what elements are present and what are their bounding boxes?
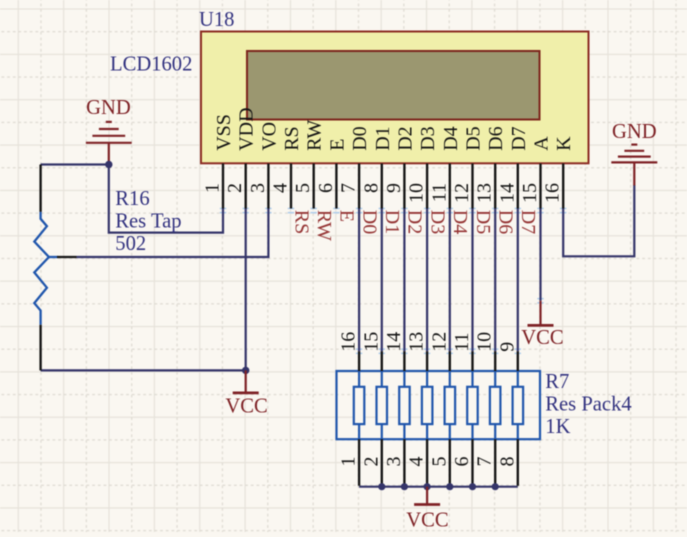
R7 resistor element 3 [399, 371, 410, 439]
svg-text:D4: D4 [440, 126, 462, 150]
R7 pin 12 (top) [428, 332, 450, 371]
svg-text:D0: D0 [349, 126, 371, 150]
svg-text:Res Pack4: Res Pack4 [545, 394, 631, 416]
wire: net D3 from U18 pin 10 to R7 pin 13 [426, 209, 428, 352]
svg-text:LCD1602: LCD1602 [110, 53, 192, 75]
power port VCC (bottom, R7 bus) [406, 487, 448, 532]
svg-text:A: A [531, 136, 553, 151]
wire: net D4 from U18 pin 11 to R7 pin 12 [449, 209, 451, 352]
R7 pin 9 (top) [496, 342, 518, 371]
ground GND (left) [86, 97, 132, 165]
svg-text:RW: RW [313, 210, 335, 241]
svg-text:13: 13 [406, 332, 428, 352]
resistor R16 bottom pin [39, 325, 41, 371]
svg-text:D2: D2 [404, 210, 426, 234]
svg-text:E: E [326, 139, 348, 151]
svg-text:GND: GND [86, 97, 131, 119]
U18 pin 7 (D0) [338, 126, 372, 208]
svg-text:D5: D5 [463, 126, 485, 150]
R7 pin 16 (top) [338, 332, 360, 371]
svg-text:15: 15 [519, 183, 541, 203]
R7 resistor element 1 [354, 371, 365, 439]
svg-text:1K: 1K [545, 416, 570, 438]
R7 pin 8 (bottom) [496, 439, 518, 486]
svg-text:D2: D2 [394, 126, 416, 150]
svg-text:VSS: VSS [213, 114, 235, 151]
wire: R16 bottom to VCC junction [41, 369, 246, 371]
R7 pin 10 (top) [474, 332, 496, 371]
junction dot R7 pin 3 on VCC bus [401, 483, 408, 490]
svg-text:9: 9 [383, 183, 405, 193]
LCD display window [247, 51, 540, 120]
U18 pin 14 (D7) [496, 126, 530, 208]
R7 pin 4 (bottom) [406, 439, 428, 486]
R7 pin 13 (top) [406, 332, 428, 371]
junction dot at VDD/R16/VCC node [242, 367, 249, 374]
svg-text:RS: RS [290, 210, 312, 234]
svg-text:D4: D4 [449, 210, 471, 234]
junction dot R7 pin 2 on VCC bus [378, 483, 385, 490]
svg-text:6: 6 [315, 183, 337, 193]
svg-text:D3: D3 [426, 210, 448, 234]
R7 resistor element 4 [422, 371, 433, 439]
resistor R16 top pin [39, 165, 41, 212]
wire: net D6 from U18 pin 13 to R7 pin 10 [494, 209, 496, 352]
svg-text:VDD: VDD [236, 107, 258, 150]
U18 pin 11 (D4) [428, 126, 462, 208]
svg-text:E: E [336, 210, 358, 222]
svg-text:6: 6 [451, 457, 473, 467]
svg-text:R16: R16 [115, 188, 149, 210]
svg-text:16: 16 [338, 332, 360, 352]
svg-text:11: 11 [451, 333, 473, 352]
junction dot R7 pin 4 on VCC bus [424, 483, 431, 490]
svg-text:5: 5 [292, 183, 314, 193]
U18 pin 15 (A) [519, 136, 553, 209]
svg-text:D1: D1 [381, 210, 403, 234]
svg-text:13: 13 [474, 183, 496, 203]
svg-text:D6: D6 [485, 126, 507, 150]
junction dot R7 pin 6 on VCC bus [469, 483, 476, 490]
U18 pin 10 (D3) [406, 126, 440, 208]
svg-text:7: 7 [474, 457, 496, 467]
svg-text:RS: RS [281, 126, 303, 150]
svg-text:2: 2 [360, 457, 382, 467]
R7 pin 5 (bottom) [428, 439, 450, 486]
svg-text:8: 8 [360, 183, 382, 193]
junction dot R7 pin 7 on VCC bus [492, 483, 499, 490]
U18 pin 9 (D2) [383, 126, 417, 208]
junction dot at GND/R16/pin1 node [105, 161, 112, 168]
R7 pin 2 (bottom) [360, 439, 382, 486]
svg-text:1: 1 [338, 457, 360, 467]
U18 pin 8 (D1) [360, 126, 394, 208]
svg-text:D5: D5 [472, 210, 494, 234]
wire: U18 pin 2 (VDD) down to VCC junction [245, 209, 247, 371]
svg-text:16: 16 [542, 183, 564, 203]
svg-text:D1: D1 [372, 126, 394, 150]
power port VCC (middle) [225, 370, 267, 417]
R7 resistor element 5 [445, 371, 456, 439]
R7 pin 11 (top) [451, 333, 473, 371]
wire: net D5 from U18 pin 12 to R7 pin 11 [471, 209, 473, 352]
svg-text:GND: GND [612, 121, 657, 143]
U18 pin 3 (VO) [247, 122, 281, 209]
svg-text:4: 4 [406, 457, 428, 467]
svg-text:D0: D0 [358, 210, 380, 234]
U18 pin 1 (VSS) [202, 114, 236, 208]
svg-text:Res Tap: Res Tap [115, 210, 181, 232]
R7 resistor element 7 [490, 371, 501, 439]
svg-text:1: 1 [202, 183, 224, 193]
wire: net D2 from U18 pin 9 to R7 pin 14 [403, 209, 405, 352]
resistor pack R7 outline [337, 371, 541, 439]
U18 pin 12 (D5) [451, 126, 485, 208]
resistor R16 tap pin [49, 256, 58, 258]
svg-text:11: 11 [428, 183, 450, 202]
svg-text:R7: R7 [545, 371, 569, 393]
wire: net D0 from U18 pin 7 to R7 pin 16 [358, 209, 360, 352]
svg-text:5: 5 [428, 457, 450, 467]
LCD module U18 body [201, 32, 589, 164]
svg-text:3: 3 [383, 457, 405, 467]
U18 pin 6 (E) [315, 139, 349, 209]
R7 resistor element 8 [513, 371, 524, 439]
wire: R16 tap to U18 pin 3 (VO) [77, 209, 269, 258]
wire: net D7 from U18 pin 14 to R7 pin 9 [517, 209, 519, 352]
svg-text:D3: D3 [417, 126, 439, 150]
svg-text:D7: D7 [508, 126, 530, 150]
svg-text:VO: VO [258, 122, 280, 151]
svg-text:15: 15 [360, 332, 382, 352]
svg-text:12: 12 [451, 183, 473, 203]
svg-text:8: 8 [496, 457, 518, 467]
R7 pin 1 (bottom) [338, 439, 360, 486]
svg-text:7: 7 [338, 183, 360, 193]
R7 pin 15 (top) [360, 332, 382, 371]
svg-text:9: 9 [496, 342, 518, 352]
wire: GND junction to R16 top [41, 163, 109, 165]
resistor R16 zigzag body [34, 212, 49, 325]
U18 pin 5 (RW) [292, 120, 326, 209]
R7 pin 7 (bottom) [474, 439, 496, 486]
R7 pin 3 (bottom) [383, 439, 405, 486]
svg-text:10: 10 [406, 183, 428, 203]
svg-text:D6: D6 [495, 210, 517, 234]
svg-text:VCC: VCC [521, 327, 563, 349]
wire: U18 pin 16 (K) to right GND [563, 185, 634, 256]
wire: net D1 from U18 pin 8 to R7 pin 15 [381, 209, 383, 352]
wire: U18 pin 15 (A) down to VCC [539, 209, 541, 301]
pin connection grip marks [220, 208, 567, 354]
svg-text:502: 502 [115, 233, 146, 255]
svg-text:12: 12 [428, 332, 450, 352]
svg-text:14: 14 [496, 183, 518, 203]
svg-text:14: 14 [383, 332, 405, 352]
svg-text:2: 2 [224, 183, 246, 193]
svg-text:10: 10 [474, 332, 496, 352]
junction dot R7 pin 5 on VCC bus [446, 483, 453, 490]
svg-text:4: 4 [270, 183, 292, 193]
wire: GND junction down-right-up to U18 pin 1 (VSS) [109, 165, 223, 233]
U18 pin 2 (VDD) [224, 107, 258, 208]
R7 resistor element 6 [467, 371, 478, 439]
R7 resistor element 2 [377, 371, 388, 439]
U18 pin 13 (D6) [474, 126, 508, 208]
R7 pin 14 (top) [383, 332, 405, 371]
R7 pin 6 (bottom) [451, 439, 473, 486]
svg-text:VCC: VCC [406, 510, 448, 532]
svg-text:U18: U18 [199, 9, 234, 31]
svg-text:D7: D7 [517, 210, 539, 234]
svg-text:K: K [553, 136, 575, 151]
wire: R7 bottom bus to VCC [359, 486, 518, 488]
svg-text:VCC: VCC [225, 395, 267, 417]
svg-text:RW: RW [304, 120, 326, 151]
ground GND (right) [611, 121, 657, 186]
svg-text:3: 3 [247, 183, 269, 193]
power port VCC (right, LED anode) [521, 301, 563, 349]
U18 pin 16 (K) [542, 136, 576, 209]
U18 pin 4 (RS) [270, 126, 304, 208]
